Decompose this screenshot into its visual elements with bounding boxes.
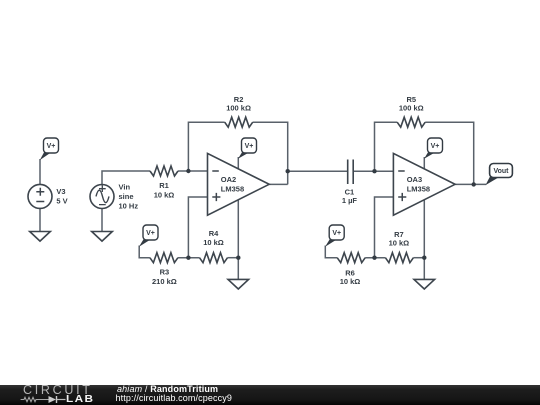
svg-text:10 kΩ: 10 kΩ	[203, 238, 224, 247]
svg-text:V+: V+	[47, 143, 56, 150]
svg-text:OA2: OA2	[221, 175, 236, 184]
svg-text:R1: R1	[159, 181, 169, 190]
svg-text:10 Hz: 10 Hz	[119, 201, 139, 210]
svg-text:V+: V+	[245, 143, 254, 150]
svg-text:sine: sine	[119, 192, 134, 201]
svg-text:10 kΩ: 10 kΩ	[389, 239, 410, 248]
svg-text:210 kΩ: 210 kΩ	[152, 277, 177, 286]
svg-text:100 kΩ: 100 kΩ	[399, 104, 424, 113]
svg-text:100 kΩ: 100 kΩ	[226, 104, 251, 113]
svg-text:R4: R4	[209, 229, 219, 238]
svg-text:Vout: Vout	[493, 168, 509, 175]
svg-text:LM358: LM358	[221, 184, 244, 193]
svg-text:R7: R7	[394, 230, 404, 239]
svg-text:V+: V+	[332, 230, 341, 237]
svg-text:R3: R3	[160, 268, 170, 277]
svg-text:1 µF: 1 µF	[342, 196, 358, 205]
svg-text:R6: R6	[345, 268, 355, 277]
svg-text:10 kΩ: 10 kΩ	[340, 277, 361, 286]
svg-text:5 V: 5 V	[56, 196, 67, 205]
svg-text:V+: V+	[146, 230, 155, 237]
svg-text:V+: V+	[431, 143, 440, 150]
svg-text:Vin: Vin	[119, 183, 131, 192]
svg-text:10 kΩ: 10 kΩ	[154, 191, 175, 200]
svg-text:LM358: LM358	[407, 184, 430, 193]
svg-text:OA3: OA3	[407, 175, 422, 184]
svg-text:V3: V3	[56, 187, 65, 196]
